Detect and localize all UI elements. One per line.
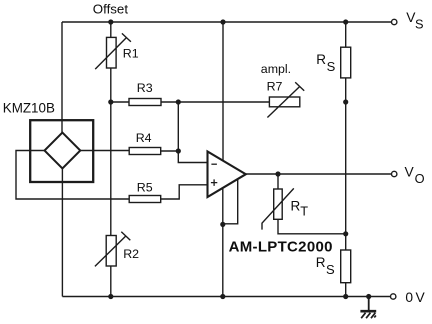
svg-text:R1: R1: [123, 47, 139, 61]
wire R3 left lead: [111, 101, 129, 103]
wire op-amp output to Vo: [246, 173, 392, 175]
wire RT top lead: [277, 174, 279, 189]
wire op-amp supply drop: [222, 22, 224, 161]
junction dot Vs rail RS: [343, 19, 348, 24]
wire RS column middle: [345, 78, 347, 250]
svg-text:S: S: [327, 59, 336, 74]
junction dot ground symbol rail: [366, 294, 371, 299]
resistor R1: [107, 37, 117, 68]
wire RT bottom to RS column: [278, 219, 346, 234]
resistor R4: [129, 148, 161, 155]
wire bridge left vertex to R5: [16, 151, 129, 200]
junction dot R2 bottom rail: [108, 294, 113, 299]
svg-text:T: T: [300, 204, 308, 219]
wire R2 bottom lead: [110, 266, 112, 297]
wire bridge right vertex to R4: [79, 150, 129, 152]
wire op-amp ground pin A: [222, 188, 224, 297]
junction dot RT bottom RS column: [343, 231, 348, 236]
resistor RS upper: [341, 47, 351, 78]
wire bridge bottom drop: [61, 167, 63, 296]
wire R3 right to R7 left: [161, 101, 269, 103]
op-amp minus sign: [211, 163, 217, 165]
wire offset node: R1 bottom to R2 top: [110, 68, 112, 236]
junction dot R7 right RS column: [343, 99, 348, 104]
resistor R2 trimmer arrow: [95, 232, 130, 267]
svg-text:KMZ10B: KMZ10B: [3, 101, 55, 116]
terminal Vo: [392, 171, 397, 176]
op-amp plus sign: [211, 179, 217, 186]
svg-text:Offset: Offset: [93, 2, 129, 17]
wire RS2 bottom lead: [345, 283, 347, 297]
terminal 0V: [391, 294, 396, 299]
junction dot output RT: [275, 171, 280, 176]
svg-text:R: R: [291, 199, 301, 214]
svg-text:R: R: [316, 255, 326, 270]
resistor R3: [129, 99, 161, 106]
junction dot R3/R7 node: [176, 99, 181, 104]
junction dot op-amp ground pins: [220, 222, 225, 227]
svg-text:O: O: [415, 171, 425, 186]
svg-text:R: R: [316, 52, 326, 67]
sensor bridge box KMZ10B: [30, 120, 93, 182]
wire to inverting input: [178, 151, 207, 163]
junction dot R4 inverting node: [176, 148, 181, 153]
resistor RS lower: [341, 250, 351, 283]
svg-text:0: 0: [405, 290, 413, 305]
wire feedback drop R3 node to R4 node: [177, 102, 179, 151]
op-amp U1: [208, 152, 246, 198]
svg-text:R5: R5: [137, 181, 153, 195]
resistor R2: [106, 236, 116, 267]
wire top supply rail: [62, 21, 392, 23]
thermistor RT: [274, 189, 283, 219]
thermistor RT arrow with foot: [262, 188, 294, 229]
resistor R7: [269, 97, 299, 107]
junction dot Vs rail supply: [220, 19, 225, 24]
bridge diamond: [45, 133, 81, 169]
svg-text:V: V: [416, 290, 426, 305]
svg-text:ampl.: ampl.: [261, 62, 291, 76]
svg-text:R2: R2: [123, 247, 139, 261]
resistor R7 trimmer arrow: [267, 82, 304, 117]
wire R4 right lead: [161, 150, 179, 152]
svg-text:R4: R4: [136, 131, 152, 145]
wire 0V bottom rail: [62, 296, 390, 298]
junction dot op-amp ground rail: [220, 294, 225, 299]
ground symbol: [368, 297, 370, 311]
svg-text:AM-LPTC2000: AM-LPTC2000: [229, 238, 333, 255]
resistor R5: [129, 196, 161, 203]
wire drop to bridge top: [61, 22, 63, 133]
junction dot Vs rail R1: [108, 19, 113, 24]
svg-text:R3: R3: [137, 81, 153, 95]
wire op-amp ground pin B: [224, 180, 238, 224]
wire R1 top lead: [110, 22, 112, 37]
svg-text:S: S: [326, 262, 335, 277]
wire RS1 top lead: [345, 22, 347, 47]
junction dot offset node R3: [108, 99, 113, 104]
wire R5 right to non-inverting input: [161, 185, 208, 199]
resistor R1 trimmer arrow: [95, 33, 131, 69]
junction dot RS bottom rail: [343, 294, 348, 299]
svg-text:S: S: [415, 16, 424, 31]
svg-text:R7: R7: [267, 79, 283, 93]
terminal Vs: [392, 19, 397, 24]
svg-text:V: V: [405, 164, 415, 179]
